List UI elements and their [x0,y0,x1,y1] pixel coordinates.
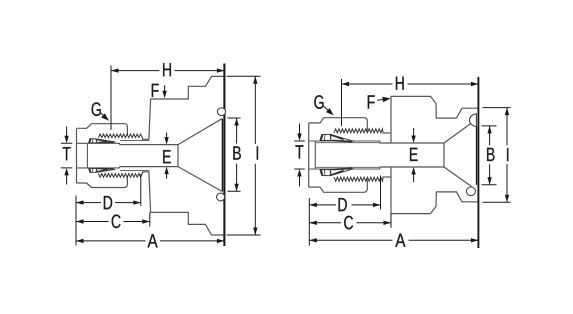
center tube section (left fitting) [120,145,179,167]
dimension C (right) [309,214,391,228]
dimension E (left) [166,133,168,179]
dimension F (right) [377,98,385,101]
inserted tube wall lines (right fitting) [316,143,380,168]
male thread, top (right fitting) [334,129,391,133]
o-ring bead, top (right fitting) [469,114,476,127]
dimension I (left) [227,76,261,235]
cone to flange face (left fitting) [178,119,222,192]
dimension F (left) [164,85,166,93]
raised gasket face (left fitting) [221,119,223,192]
dimension H (right) [342,79,479,126]
nut bore / tube counterbore (left fitting) [77,143,120,168]
label G with leader (left) [100,113,105,118]
front and back ferrules, bottom (right fitting) [320,168,353,175]
nut bore / tube counterbore (right fitting) [309,141,381,169]
dimension B (left) [227,118,240,191]
body shank lines (left fitting) [120,141,149,171]
dimension T (right) [294,124,305,187]
nut N2 (right fitting) [309,118,368,193]
dimension I (right) [483,108,511,203]
raised gasket face (right fitting) [476,126,478,185]
dimension A (left) [76,196,224,246]
front and back ferrules, top (right fitting) [320,134,353,141]
o-ring bead, bottom (left fitting) [217,193,225,201]
dimension A (right) [309,198,478,246]
flange face line (right fitting) [477,77,479,248]
front and back ferrules, top (left fitting) [89,139,115,143]
dimension T (left) [61,127,73,185]
label G with leader (right) [323,105,330,111]
dimension C (left) [76,212,150,226]
male thread, top (left fitting) [98,134,149,139]
o-ring bead, bottom (right fitting) [466,187,475,196]
dimension D (left) [76,174,141,206]
center tube section (right fitting) [381,143,444,167]
body hex and flange back profile (left fitting) [149,76,225,235]
nut N1 (left fitting) [77,124,128,188]
male thread, bottom (right fitting) [334,177,391,181]
flange face line (left fitting) [223,64,225,247]
o-ring bead, top (left fitting) [217,108,225,116]
dimension H (left) [111,66,224,131]
dimension B (right) [482,126,497,185]
front and back ferrules, bottom (left fitting) [89,168,115,172]
body hex and flange back profile (right fitting) [391,96,478,213]
male thread, bottom (left fitting) [98,172,149,177]
dimension E (right) [413,128,415,182]
dimension D (right) [309,176,380,210]
cone to flange face (right fitting) [444,123,472,187]
